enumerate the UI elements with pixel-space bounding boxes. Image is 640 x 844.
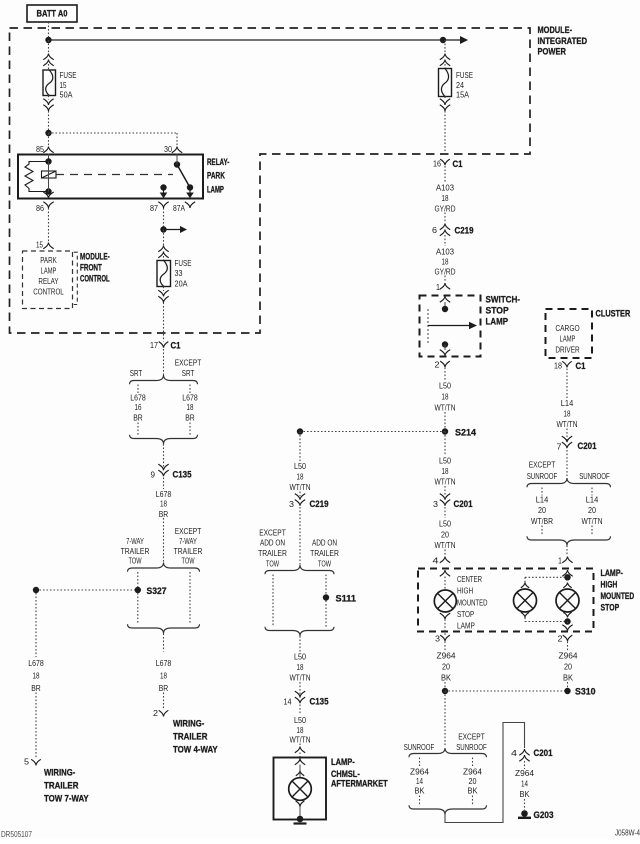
chmsl inner chevron [296, 771, 304, 776]
svg-text:20: 20 [564, 662, 572, 672]
svg-text:BR: BR [159, 683, 169, 693]
wire to G203 [524, 799, 526, 810]
svg-text:MODULE-: MODULE- [538, 25, 573, 36]
svg-text:EXCEPT: EXCEPT [175, 526, 202, 536]
relay control dashed link [56, 174, 173, 176]
svg-text:1: 1 [558, 556, 562, 566]
module-integrated power box outline [10, 28, 531, 333]
wire branch add on [325, 575, 327, 595]
svg-text:16: 16 [433, 159, 441, 169]
svg-text:3: 3 [289, 499, 294, 509]
wire bulb to ground [299, 807, 301, 817]
wire to S310 right [567, 682, 569, 691]
svg-text:L678: L678 [182, 393, 198, 403]
svg-text:BR: BR [31, 683, 41, 693]
fuse 33 20A [157, 258, 192, 289]
splice S327 [135, 587, 141, 593]
svg-text:BK: BK [468, 786, 478, 796]
svg-text:L678: L678 [156, 658, 172, 668]
svg-text:PARK: PARK [40, 255, 57, 265]
svg-text:WT/TN: WT/TN [435, 477, 456, 487]
wire label L678 16 BR [130, 393, 146, 423]
svg-text:HIGH: HIGH [601, 580, 618, 591]
svg-text:EXCEPT: EXCEPT [458, 732, 485, 742]
svg-text:L14: L14 [586, 495, 599, 505]
bulb high mounted left [514, 589, 537, 612]
wire branch SRT [137, 385, 139, 394]
svg-text:BR: BR [159, 509, 169, 519]
svg-text:EXCEPT: EXCEPT [529, 460, 556, 470]
svg-text:L50: L50 [294, 461, 306, 471]
merge brace sunroof cluster [527, 536, 611, 545]
svg-text:TRAILER: TRAILER [174, 546, 203, 556]
svg-text:3: 3 [435, 634, 440, 644]
bulb left chevron bottom [521, 612, 529, 617]
switch contact bottom [442, 341, 448, 347]
wire merge to pin 1 [566, 546, 568, 557]
svg-text:7-WAY: 7-WAY [179, 536, 197, 546]
wire to fuse 33 [163, 230, 165, 246]
wire label L50 18 WT/TN e [290, 715, 311, 745]
wire label L50 18 WT/TN c [290, 461, 311, 492]
wire C201 to ground [524, 761, 526, 769]
svg-text:EXCEPT: EXCEPT [259, 528, 286, 538]
bulb chmsl [289, 778, 312, 801]
wire label L678 18 BR a [182, 393, 198, 423]
svg-text:TRAILER: TRAILER [258, 548, 287, 558]
chmsl bulb exit chevron [296, 801, 305, 807]
wire S214 down [444, 432, 446, 456]
svg-text:S111: S111 [336, 594, 357, 605]
svg-text:1: 1 [436, 282, 440, 292]
wire to pin 1 [444, 276, 446, 283]
svg-text:7: 7 [557, 442, 562, 452]
merge brace SRT [130, 435, 198, 444]
svg-text:Z964: Z964 [437, 651, 456, 661]
svg-text:EXCEPT: EXCEPT [175, 358, 202, 368]
svg-text:FUSE: FUSE [456, 70, 473, 80]
wire branch sunroof [419, 758, 421, 767]
splice S214 [442, 428, 448, 434]
wire fuse 33 to C1 [163, 303, 165, 342]
svg-text:BK: BK [415, 786, 425, 796]
svg-text:18: 18 [160, 499, 167, 509]
svg-text:L14: L14 [536, 495, 549, 505]
svg-text:TOW: TOW [182, 556, 195, 566]
svg-text:87: 87 [150, 203, 158, 213]
splice S310 [442, 688, 448, 694]
wire label L14 20 WT/TN 2 [582, 495, 603, 527]
wire bus horizontal [49, 39, 444, 41]
svg-text:SRT: SRT [130, 368, 143, 378]
svg-text:BR: BR [185, 413, 195, 423]
svg-text:WT/TN: WT/TN [435, 403, 456, 413]
wire to pin 5 7way [35, 693, 37, 760]
svg-text:Z964: Z964 [515, 768, 534, 778]
wire switch to S214 [444, 368, 446, 381]
svg-text:30: 30 [164, 144, 172, 154]
svg-text:L678: L678 [156, 489, 172, 499]
svg-text:RELAY-: RELAY- [207, 157, 229, 168]
wire label Z964 20 BK b [559, 651, 578, 683]
wire label A103 18 GY/RD [435, 183, 456, 214]
svg-text:CONTROL: CONTROL [33, 287, 64, 297]
wire pin3 down [444, 642, 446, 652]
svg-text:L14: L14 [561, 398, 574, 408]
svg-text:L50: L50 [294, 652, 306, 662]
wire pin85 into relay [48, 154, 50, 162]
wire 87 down [163, 208, 165, 230]
svg-text:C219: C219 [310, 499, 329, 510]
svg-text:TOW: TOW [129, 556, 142, 566]
svg-text:BK: BK [441, 673, 451, 683]
svg-text:L678: L678 [130, 393, 146, 403]
svg-text:BK: BK [520, 789, 530, 799]
relay contact 87 [160, 184, 166, 190]
svg-text:GY/RD: GY/RD [435, 267, 456, 277]
svg-text:GY/RD: GY/RD [435, 204, 456, 214]
wire 86 to 15 [48, 208, 50, 242]
node fuse-relay junction [45, 130, 51, 136]
svg-text:5: 5 [24, 757, 29, 767]
bulb exit chevron [440, 613, 450, 619]
relay pin 87A arrow [189, 188, 191, 194]
fuse 24 15A [439, 69, 474, 100]
splice S111 [323, 594, 329, 600]
svg-text:FUSE: FUSE [60, 70, 77, 80]
svg-text:18: 18 [187, 402, 194, 412]
relay K1 RELAY-PARK LAMP box [18, 155, 203, 199]
svg-text:LAMP: LAMP [560, 334, 576, 344]
svg-text:3: 3 [433, 499, 438, 509]
svg-text:RELAY: RELAY [38, 276, 58, 286]
wire merge to 4way [163, 634, 165, 652]
svg-text:4: 4 [433, 556, 439, 566]
svg-text:WT/TN: WT/TN [290, 673, 311, 683]
wire branch add on b [325, 601, 327, 628]
svg-text:14: 14 [521, 779, 528, 789]
svg-text:14: 14 [416, 776, 423, 786]
relay switch blade [174, 161, 180, 167]
wire join to exit [567, 622, 569, 626]
wire branch WT/BR b [541, 526, 543, 537]
svg-text:TRAILER: TRAILER [173, 732, 208, 743]
ground chmsl case [297, 816, 304, 823]
svg-text:24: 24 [456, 80, 464, 90]
wire pin30 into relay [176, 154, 178, 165]
wire tap down [524, 577, 526, 582]
svg-text:MOUNTED: MOUNTED [457, 598, 488, 608]
wire to S310 left [444, 682, 446, 691]
chmsl box entry chevron [295, 759, 305, 765]
svg-text:33: 33 [175, 268, 183, 278]
wire branch WT/BR [541, 488, 543, 496]
svg-text:15: 15 [36, 240, 43, 250]
label MODULE-FRONT CONTROL [80, 252, 110, 285]
svg-text:17: 17 [150, 340, 158, 350]
wire label L14 18 WT/TN [557, 398, 578, 429]
wire branch WT/TN b [591, 526, 593, 537]
svg-text:TOW 7-WAY: TOW 7-WAY [44, 794, 89, 805]
svg-text:18: 18 [554, 361, 562, 371]
svg-text:L50: L50 [439, 381, 451, 391]
svg-text:7-WAY: 7-WAY [126, 536, 144, 546]
svg-text:C201: C201 [578, 441, 598, 452]
node lamp feed [564, 574, 570, 580]
svg-text:BK: BK [563, 673, 573, 683]
wire to C135 pin 14 [299, 682, 301, 698]
wire label A103 18 GY/RD 2 [435, 247, 456, 277]
lamp L3 LAMP-CHMSL-AFTERMARKET box [274, 758, 327, 820]
svg-text:TRAILER: TRAILER [121, 546, 150, 556]
wire batt to bus [48, 22, 50, 40]
switch contact top [442, 306, 448, 312]
svg-text:20: 20 [441, 530, 449, 540]
wire branch 7way [137, 572, 139, 587]
wire C1 to C219 [444, 166, 446, 182]
wire bulbs join [525, 621, 568, 623]
module-front control box PARK LAMP RELAY CONTROL [23, 251, 73, 309]
svg-text:C1: C1 [453, 159, 464, 170]
wire label Z964 20 BK c [463, 767, 482, 796]
wire merge down [299, 636, 301, 652]
svg-text:A103: A103 [436, 247, 454, 257]
svg-text:BR: BR [133, 413, 143, 423]
svg-text:S327: S327 [147, 586, 167, 597]
wire into fuse 33 [163, 256, 165, 261]
wire to S214 [444, 412, 446, 432]
merge brace sunroof bottom [409, 805, 487, 814]
wire out of switch [444, 345, 446, 351]
svg-text:2: 2 [435, 360, 440, 370]
wire branch except SRT b [189, 423, 191, 436]
svg-text:86: 86 [36, 203, 44, 213]
svg-text:L678: L678 [28, 658, 44, 668]
bracket for module-front control [74, 252, 78, 304]
wire branch except SRT [189, 385, 191, 394]
label LAMP-HIGH MOUNTED STOP [601, 568, 635, 614]
label SWITCH-STOP LAMP [486, 295, 521, 328]
wire to bulb [299, 765, 301, 778]
svg-text:18: 18 [564, 409, 571, 419]
wire bus to connector right [444, 40, 446, 54]
wire to trailer split [163, 518, 165, 563]
svg-text:18: 18 [442, 392, 449, 402]
wire pin2 down [567, 642, 569, 652]
wire to chmsl [299, 744, 301, 747]
svg-text:TOW: TOW [266, 559, 279, 569]
wire S310 down [444, 691, 446, 747]
svg-text:C201: C201 [454, 499, 474, 510]
switch actuator arrow [428, 325, 470, 327]
wire arrow 87 feed [164, 229, 182, 231]
svg-text:SUNROOF: SUNROOF [456, 742, 487, 752]
node bulbs join [564, 618, 570, 624]
svg-text:SUNROOF: SUNROOF [527, 471, 558, 481]
svg-text:PARK: PARK [207, 171, 225, 182]
svg-text:85: 85 [36, 144, 44, 154]
connector chevrons below fuse 24 [440, 105, 450, 111]
svg-text:WIRING-: WIRING- [44, 768, 75, 779]
wire bus arrow to right [443, 39, 461, 41]
split brace add on [265, 565, 334, 574]
relay coil resistor [25, 162, 49, 192]
wire to sunroof split [566, 450, 568, 480]
wire label Z964 20 BK a [437, 651, 456, 683]
wire into chmsl box [299, 753, 301, 758]
svg-text:15: 15 [60, 80, 67, 90]
svg-text:18: 18 [297, 725, 304, 735]
wire fuse 24 to C1 [444, 111, 446, 154]
svg-text:WT/TN: WT/TN [582, 516, 603, 526]
svg-text:POWER: POWER [538, 47, 567, 58]
wire lamp feed tap [525, 576, 568, 578]
svg-text:AFTERMARKET: AFTERMARKET [331, 779, 388, 790]
split brace SRT [130, 375, 198, 384]
wire branch except add on [272, 575, 274, 628]
wire S327 tap [36, 589, 135, 591]
label LAMP-CHMSL-AFTERMARKET [331, 757, 388, 790]
wire label L678 18 BR d [28, 658, 44, 693]
svg-text:SUNROOF: SUNROOF [404, 742, 435, 752]
svg-text:LAMP: LAMP [486, 317, 509, 328]
connector chevrons below fuse 33 [158, 296, 168, 302]
connector chevrons above fuse 24 [440, 54, 450, 60]
svg-text:14: 14 [284, 697, 292, 707]
split brace sunroof cluster [527, 478, 611, 487]
svg-text:DRIVER: DRIVER [555, 345, 579, 355]
relay coil out chevron [43, 192, 53, 198]
svg-text:MODULE-: MODULE- [80, 252, 110, 263]
wire to C219 pin 3 [299, 492, 301, 497]
connector chevrons above fuse 33 [158, 246, 168, 252]
node bus right junction [440, 37, 446, 43]
svg-text:18: 18 [442, 257, 449, 267]
svg-text:WT/TN: WT/TN [290, 482, 311, 492]
svg-text:SUNROOF: SUNROOF [579, 471, 610, 481]
wire to lamp pin 4 [444, 550, 446, 557]
split brace sunroof bottom [409, 748, 487, 757]
svg-text:HIGH: HIGH [457, 586, 473, 596]
svg-text:87A: 87A [173, 203, 185, 213]
svg-text:TOW 4-WAY: TOW 4-WAY [173, 745, 218, 756]
lamp entry chevron pin1 [562, 570, 572, 576]
svg-text:STOP: STOP [486, 306, 510, 317]
svg-text:6: 6 [432, 225, 437, 235]
svg-text:C1: C1 [171, 341, 182, 352]
svg-text:18: 18 [442, 193, 449, 203]
svg-text:G203: G203 [534, 810, 554, 821]
svg-text:WT/TN: WT/TN [557, 419, 578, 429]
wire fuse 15 to junction [48, 111, 50, 133]
svg-text:C135: C135 [310, 697, 330, 708]
wire to C201 [444, 486, 446, 496]
wire below fuse 15 [48, 96, 50, 100]
svg-text:DR505107: DR505107 [1, 830, 32, 839]
wire bus to connector [48, 40, 50, 54]
svg-text:LAMP-: LAMP- [601, 568, 623, 579]
svg-text:18: 18 [442, 466, 449, 476]
wire S327 tap down [35, 593, 37, 657]
svg-text:CLUSTER: CLUSTER [596, 309, 631, 320]
module CLUSTER box [546, 309, 593, 358]
bulb high mounted right [556, 589, 579, 612]
wire branch except 7way [189, 572, 191, 625]
svg-text:20: 20 [442, 662, 450, 672]
switch S1 SWITCH-STOP LAMP box [420, 296, 481, 357]
svg-text:4: 4 [511, 748, 517, 758]
wire branch SRT b [137, 423, 139, 436]
svg-text:WIRING-: WIRING- [173, 719, 204, 730]
battery feed box BATT A0 [27, 5, 77, 22]
svg-text:L50: L50 [439, 456, 451, 466]
wire to pin 2 4way [163, 693, 165, 711]
svg-text:ADD ON: ADD ON [312, 538, 337, 548]
svg-text:INTEGRATED: INTEGRATED [538, 36, 588, 47]
bulb left chevron top [521, 583, 529, 588]
wire to C219 [444, 213, 446, 223]
svg-text:CONTROL: CONTROL [80, 274, 110, 285]
wire C1 to SRT split [163, 349, 165, 375]
svg-text:WT/TN: WT/TN [435, 540, 456, 550]
svg-text:20A: 20A [175, 279, 188, 289]
node 87 junction [160, 226, 166, 232]
lamp exit chevron [562, 625, 572, 631]
switch entry chevron [440, 296, 450, 302]
wire junction to pin 85 [48, 133, 50, 147]
label RELAY-PARK LAMP [207, 157, 229, 195]
wire C201 down [444, 507, 446, 518]
svg-text:9: 9 [151, 470, 156, 480]
svg-text:CARGO: CARGO [555, 323, 580, 333]
node relay coil top [45, 158, 51, 164]
ground G203 [518, 810, 554, 821]
node S327 tap end [33, 587, 39, 593]
svg-text:L50: L50 [439, 519, 451, 529]
wire pin4 to bulb [444, 577, 446, 591]
wire label L678 18 BR b [156, 489, 172, 519]
svg-text:TOW: TOW [318, 559, 331, 569]
wire into fuse 15 [48, 64, 50, 70]
wire C135 down [299, 705, 301, 715]
svg-text:50A: 50A [60, 90, 73, 100]
svg-text:2: 2 [558, 634, 563, 644]
label WIRING-TRAILER TOW 4-WAY [173, 719, 218, 756]
connector chevrons above fuse 15 [43, 54, 53, 60]
svg-text:Z964: Z964 [410, 767, 429, 777]
svg-text:C219: C219 [455, 226, 474, 237]
svg-text:18: 18 [297, 472, 304, 482]
wire junction to pin 30 [49, 132, 178, 134]
wire merge to C135 [163, 444, 165, 467]
node bus left junction [45, 37, 51, 43]
svg-text:20: 20 [469, 776, 477, 786]
svg-text:LAMP-: LAMP- [331, 757, 355, 768]
svg-text:20: 20 [538, 505, 546, 515]
wire tap down middle [299, 432, 301, 462]
svg-text:LAMP: LAMP [41, 266, 57, 276]
label CENTER HIGH MOUNTED STOP LAMP [457, 574, 488, 631]
wire S214 tap [300, 431, 445, 433]
svg-text:Z964: Z964 [463, 767, 482, 777]
wire branch except sunroof [472, 758, 474, 767]
wire into switch [444, 302, 446, 309]
wire label L50 20 WT/TN [435, 519, 456, 551]
switch actuator bar [427, 309, 429, 344]
svg-text:SWITCH-: SWITCH- [486, 295, 521, 306]
relay coil element [42, 171, 57, 178]
svg-text:Z964: Z964 [559, 651, 578, 661]
